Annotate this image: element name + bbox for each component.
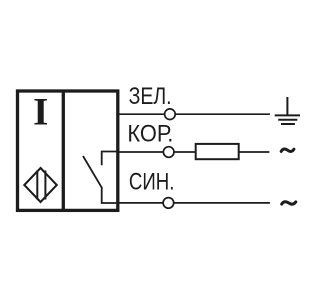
terminal circle blue [163,198,174,209]
terminal circle brown [163,147,174,158]
switch top stub wire [102,152,118,166]
svg-text:КОР.: КОР. [127,120,173,147]
ground symbol [275,97,300,124]
sensor body divider [62,91,65,210]
wire green right [175,113,270,115]
svg-text:I: I [33,91,48,134]
terminal circle green [165,109,176,120]
load resistor [196,144,239,159]
wire brown left [119,151,163,153]
svg-text:СИН.: СИН. [129,168,175,195]
AC symbol bottom [282,202,296,204]
diamond inner line left [36,171,38,200]
wire blue right [174,202,270,204]
AC symbol top [281,149,294,151]
wire green left [119,113,165,115]
sensor body outline [18,91,118,210]
diamond inner line right [44,171,46,200]
wire brown right [239,151,270,153]
proximity sensor diamond symbol [24,168,57,202]
wire blue left [119,202,163,204]
svg-text:ЗЕЛ.: ЗЕЛ. [129,83,172,110]
switch bottom stub wire [102,189,118,204]
wire brown middle [174,151,196,153]
switch blade [83,156,102,189]
